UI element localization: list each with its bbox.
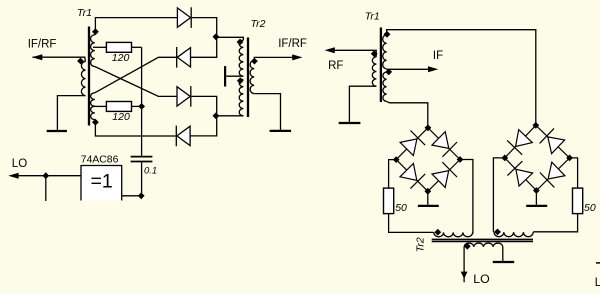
svg-text:LO: LO	[595, 277, 600, 289]
diode W1c	[400, 164, 417, 181]
diode W2b	[548, 137, 565, 154]
node D junction	[138, 192, 145, 199]
Tr2 right winding a	[434, 232, 473, 236]
svg-text:LO: LO	[473, 272, 489, 286]
diode W1a	[400, 139, 417, 156]
RF arrow	[325, 47, 335, 53]
Tr1 right secondary dot 2	[385, 69, 392, 76]
bridge W2 bottom node	[533, 187, 540, 194]
IF arrow	[428, 66, 438, 72]
wire D1 cathode to node B	[192, 18, 217, 37]
wire node A vertical to capacitor C1	[141, 47, 143, 156]
bridge W2 edge wire top-right	[536, 125, 570, 158]
bridge W1 left node	[393, 156, 400, 163]
diode D1	[177, 8, 190, 27]
bridge W2 edge wire bottom-right	[536, 158, 569, 191]
Tr1 primary winding	[81, 62, 85, 96]
wire W2 left to Tr2 winding b	[493, 158, 504, 232]
svg-text:=1: =1	[91, 171, 113, 193]
svg-text:50: 50	[584, 202, 596, 214]
svg-text:120: 120	[112, 111, 130, 123]
transformer Tr2 core line 1 (right)	[432, 238, 533, 240]
Tr1 right secondary winding 2	[383, 72, 387, 101]
wire node C to Tr2 primary bottom	[216, 115, 244, 117]
IF/RF arrow (left)	[32, 54, 42, 60]
wire D3 cathode to node C	[192, 96, 217, 115]
ground (Tr2 winding c)	[493, 261, 514, 263]
bridge W2 top node	[532, 122, 539, 129]
wire LO to gate U1 input	[12, 175, 81, 177]
Tr1 secondary winding 2	[91, 93, 95, 120]
wire Tr2 secondary top to IF/RF out	[254, 57, 292, 60]
ground (Tr1 right primary)	[339, 122, 361, 124]
wire stub from node E	[45, 176, 47, 201]
transformer Tr1 core	[88, 27, 90, 126]
Tr2 primary winding upper	[239, 40, 243, 76]
wire Tr1 right sec top to bridge W2	[387, 30, 536, 126]
bridge W1 edge wire bottom-right	[428, 160, 460, 192]
Tr1 right primary winding	[372, 57, 376, 86]
wire Tr2 secondary bottom to ground	[254, 94, 280, 130]
wire Tr1 right primary bottom to ground	[349, 86, 376, 122]
Tr2 secondary winding	[250, 60, 254, 93]
wire node D to gate U1 output	[122, 195, 142, 197]
wire fragment (cropped)	[596, 262, 600, 264]
wire Tr1 sec1 top to diode D1	[95, 18, 177, 35]
Tr1 secondary winding 1	[91, 35, 95, 67]
Tr1 primary top dot	[77, 58, 84, 65]
bridge W1 edge wire bottom-left	[396, 160, 428, 192]
Tr2 primary tap dot	[237, 77, 244, 84]
bridge W2 right node	[566, 155, 573, 162]
Tr2 right winding b dot	[494, 229, 501, 236]
bridge W1 top node	[425, 124, 432, 131]
svg-text:Tr2: Tr2	[251, 18, 266, 30]
wire Tr1 right sec bottom to bridge W1	[387, 101, 428, 127]
ground (bridge W2)	[526, 205, 547, 207]
node C junction	[213, 112, 220, 119]
wire Tr1 sec2 tap to resistor R2	[93, 105, 107, 107]
wire IF tap	[387, 68, 428, 70]
wire W1 right to Tr2 winding a	[460, 160, 473, 234]
diode W2a	[516, 130, 533, 147]
ground (Tr1 primary)	[47, 130, 67, 132]
wire R3 to Tr2 winding a	[389, 214, 434, 233]
svg-text:Tr1: Tr1	[77, 7, 92, 19]
ground (bridge W1)	[418, 205, 439, 207]
wire Tr1 sec1 bottom to diode D3 (diagonal)	[95, 67, 177, 97]
wire W2 right to resistor R4	[570, 158, 578, 188]
stub bar at Tr2 tap	[224, 66, 226, 86]
Tr2 right winding b	[494, 232, 533, 237]
resistor R2	[106, 102, 131, 112]
svg-text:50: 50	[395, 202, 407, 214]
transformer Tr2 core line 2 (right)	[432, 241, 533, 243]
diode D3	[177, 87, 190, 106]
svg-text:LO: LO	[12, 158, 27, 170]
svg-text:IF: IF	[433, 50, 443, 62]
gate U1 74AC86 body	[81, 166, 122, 201]
svg-text:IF/RF: IF/RF	[278, 38, 307, 50]
wire R4 to Tr2 winding b	[533, 214, 577, 232]
Tr1 secondary winding 1 dot	[92, 28, 99, 35]
bridge W1 edge wire top-left	[396, 128, 428, 160]
svg-text:0.1: 0.1	[144, 165, 157, 176]
capacitor C1 plate 1	[131, 156, 153, 158]
diode W1d	[432, 171, 449, 188]
svg-text:RF: RF	[328, 60, 343, 72]
transformer Tr2 core	[247, 38, 249, 118]
Tr2 right winding c dot	[464, 243, 471, 250]
wire Tr2 winding c to ground	[502, 247, 504, 261]
resistor R1	[106, 42, 131, 52]
wire D2 anode to node B	[191, 37, 217, 57]
bridge W2 left node	[501, 155, 508, 162]
Tr2 right winding a dot	[434, 229, 441, 236]
Tr1 right secondary dot 1	[384, 31, 391, 38]
node E junction	[42, 172, 49, 179]
node A junction	[138, 103, 145, 110]
IF/RF arrow (right out)	[292, 54, 302, 60]
wire Tr1 sec2 top to diode D2 (diagonal)	[95, 57, 177, 93]
bridge W2 edge wire bottom-left	[505, 158, 537, 191]
Tr1 right secondary winding 1	[383, 35, 387, 69]
svg-text:120: 120	[112, 52, 130, 64]
wire Tr1 sec1 tap to resistor R1	[93, 46, 107, 48]
wire RF to Tr1 right primary	[333, 50, 377, 57]
LO arrow (down)	[461, 272, 468, 279]
svg-text:74AC86: 74AC86	[81, 155, 119, 166]
svg-text:IF/RF: IF/RF	[28, 39, 57, 51]
node B junction	[213, 33, 220, 40]
wire Tr1 primary bottom to ground	[57, 96, 85, 130]
ground (Tr2 secondary)	[270, 130, 292, 132]
bridge W1 right node	[457, 156, 464, 163]
wire C1 to node D	[141, 162, 143, 196]
Tr2 primary winding lower	[239, 79, 243, 115]
svg-text:Tr2: Tr2	[414, 237, 426, 252]
Tr2 primary top dot	[237, 39, 244, 46]
wire Tr1 sec2 bottom to diode D4	[95, 122, 175, 136]
Tr1 secondary winding 2 dot	[92, 119, 99, 126]
wire IF/RF to Tr1 primary	[33, 57, 86, 61]
wire D4 anode to node C	[190, 116, 217, 136]
Tr1 right primary top dot	[371, 50, 378, 57]
Tr2 secondary top dot	[251, 58, 258, 65]
resistor R4	[573, 188, 583, 214]
wire Tr2 tap to stub bar	[226, 75, 243, 77]
wire W1 left to resistor R3	[389, 160, 397, 189]
bridge W1 edge wire top-right	[428, 128, 460, 160]
svg-text:Tr1: Tr1	[365, 11, 380, 23]
diode W1b	[432, 132, 449, 149]
bridge W1 bottom node	[424, 188, 431, 195]
diode D4	[177, 126, 190, 145]
diode W2d	[548, 162, 565, 179]
Tr2 right winding c	[464, 243, 503, 247]
wire W1 bottom to ground	[427, 191, 429, 205]
wire Tr2 winding c to LO	[463, 247, 465, 282]
transformer Tr1 core (right)	[380, 28, 382, 103]
diode D2	[177, 48, 190, 67]
wire R1 to node A	[132, 46, 142, 48]
wire R2 to node A	[132, 105, 142, 107]
wire W2 bottom to ground	[535, 191, 537, 205]
diode W2c	[516, 169, 533, 186]
capacitor C1 plate 2	[131, 161, 153, 163]
bridge W2 edge wire top-left	[505, 125, 536, 158]
resistor R3	[384, 188, 394, 214]
wire node B to Tr2 primary top	[216, 37, 244, 40]
LO arrow (left)	[8, 173, 18, 179]
